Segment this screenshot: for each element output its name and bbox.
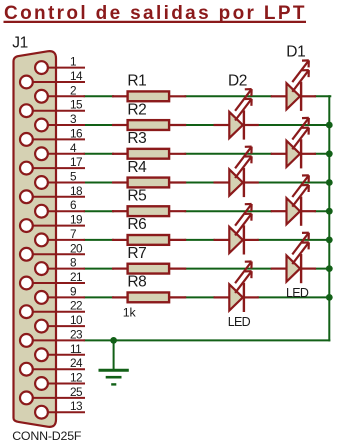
wire: R6 to LED anode xyxy=(186,239,214,241)
svg-text:7: 7 xyxy=(70,227,76,241)
resistor R6 xyxy=(112,216,186,245)
pin 7 of J1 xyxy=(35,227,85,246)
title: Control de salidas por LPT xyxy=(4,3,307,24)
svg-text:19: 19 xyxy=(70,213,82,227)
LED D2 xyxy=(214,72,259,139)
junction: bus node xyxy=(326,122,333,129)
connector J1 reference label xyxy=(12,35,28,52)
svg-text:2: 2 xyxy=(70,83,76,97)
svg-text:CONN-D25F: CONN-D25F xyxy=(12,429,82,443)
svg-text:18: 18 xyxy=(70,184,83,198)
wire: R4 to LED anode xyxy=(186,182,214,184)
junction: ground tap node xyxy=(110,337,117,344)
svg-text:R5: R5 xyxy=(127,188,146,205)
svg-text:13: 13 xyxy=(70,399,83,413)
svg-text:Control de salidas por LPT: Control de salidas por LPT xyxy=(4,3,307,24)
pin 10 of J1 xyxy=(35,313,85,332)
svg-text:5: 5 xyxy=(70,170,77,184)
junction: bus node xyxy=(326,237,333,244)
wire: R8 to LED anode xyxy=(186,296,214,298)
svg-text:15: 15 xyxy=(70,98,83,112)
pin 25 of J1 xyxy=(20,385,85,404)
wire: pin 6 to R5 xyxy=(85,210,113,212)
wire: LED cathode to bus xyxy=(316,95,331,97)
svg-text:4: 4 xyxy=(70,141,77,155)
wire: cathode bus (right vertical) xyxy=(328,96,330,340)
wire: LED cathode to bus xyxy=(258,182,330,184)
resistor R5 xyxy=(112,188,186,217)
svg-text:LED: LED xyxy=(228,315,251,329)
wire: pin 9 to R8 xyxy=(85,296,113,298)
wire: pin 2 to R1 xyxy=(85,95,113,97)
pin 21 of J1 xyxy=(20,270,85,289)
pin 12 of J1 xyxy=(35,371,85,390)
resistor R8 xyxy=(112,274,186,320)
wire: pin 4 to R3 xyxy=(85,153,113,155)
junction: bus node xyxy=(326,294,333,301)
pin 6 of J1 xyxy=(35,198,85,217)
svg-text:D2: D2 xyxy=(228,72,247,89)
pin 11 of J1 xyxy=(35,342,85,361)
pin 14 of J1 xyxy=(20,69,85,88)
pin 20 of J1 xyxy=(20,241,85,260)
svg-text:8: 8 xyxy=(70,256,77,270)
svg-text:R1: R1 xyxy=(127,73,146,90)
LED (row 5) xyxy=(271,175,316,226)
svg-text:10: 10 xyxy=(70,313,83,327)
wire: pin 8 to R7 xyxy=(85,268,113,270)
resistor R4 xyxy=(112,159,186,188)
wire: LED cathode to bus xyxy=(258,239,330,241)
svg-text:6: 6 xyxy=(70,198,77,212)
connector J1 body (CONN-D25F) xyxy=(14,51,57,427)
resistor R3 xyxy=(112,130,186,159)
svg-text:R3: R3 xyxy=(127,130,146,147)
LED (row 4) xyxy=(214,147,259,198)
wire: R2 to LED anode xyxy=(186,124,214,126)
pin 2 of J1 xyxy=(35,83,85,102)
wire: pin 7 to R6 xyxy=(85,239,113,241)
svg-text:1: 1 xyxy=(70,55,76,69)
resistor R2 xyxy=(112,101,186,130)
junction: bus node xyxy=(326,265,333,272)
svg-text:J1: J1 xyxy=(12,35,28,52)
LED (right column, bottom, with LED value label) xyxy=(271,233,316,300)
svg-text:D1: D1 xyxy=(286,44,305,61)
pin 19 of J1 xyxy=(20,213,85,232)
svg-text:22: 22 xyxy=(70,299,82,313)
wire: R1 to LED anode xyxy=(186,95,272,97)
LED (row 6) xyxy=(214,204,259,255)
wire: LED cathode to bus xyxy=(316,210,331,212)
svg-text:11: 11 xyxy=(70,342,81,356)
pin 23 of J1 xyxy=(20,327,85,346)
junction: bus node xyxy=(326,150,333,157)
svg-text:12: 12 xyxy=(70,371,82,385)
svg-text:25: 25 xyxy=(70,385,83,399)
svg-text:R2: R2 xyxy=(127,101,146,118)
pin 18 of J1 xyxy=(20,184,85,203)
junction: bus node xyxy=(326,179,333,186)
pin 8 of J1 xyxy=(35,256,85,275)
pin 4 of J1 xyxy=(35,141,85,160)
svg-text:14: 14 xyxy=(70,69,83,83)
svg-text:23: 23 xyxy=(70,327,83,341)
svg-text:1k: 1k xyxy=(123,305,137,319)
connector J1 value label CONN-D25F xyxy=(12,429,82,443)
svg-text:LED: LED xyxy=(286,286,309,300)
wire: pin 3 to R2 xyxy=(85,124,113,126)
resistor R1 xyxy=(112,73,186,102)
wire: LED cathode to bus xyxy=(258,124,330,126)
pin 16 of J1 xyxy=(20,126,85,145)
pin 15 of J1 xyxy=(20,98,85,117)
svg-text:16: 16 xyxy=(70,126,83,140)
pin 9 of J1 xyxy=(35,284,85,303)
wire: LED cathode to bus xyxy=(316,268,331,270)
svg-text:3: 3 xyxy=(70,112,77,126)
svg-text:9: 9 xyxy=(70,284,76,298)
LED D1 xyxy=(271,44,316,111)
svg-text:R7: R7 xyxy=(127,245,146,262)
svg-text:R4: R4 xyxy=(127,159,147,176)
pin 22 of J1 xyxy=(20,299,85,318)
pin 3 of J1 xyxy=(35,112,85,131)
wire: LED cathode to bus xyxy=(258,296,330,298)
pin 13 of J1 xyxy=(35,399,85,418)
ground xyxy=(99,340,129,384)
pin 1 of J1 xyxy=(35,55,85,74)
wire: LED cathode to bus xyxy=(316,153,331,155)
LED (left column, bottom, with LED value label) xyxy=(214,262,259,330)
svg-text:R6: R6 xyxy=(127,216,146,233)
wire: pin 5 to R4 xyxy=(85,182,113,184)
svg-text:R8: R8 xyxy=(127,274,146,291)
svg-text:17: 17 xyxy=(70,155,82,169)
wire: R3 to LED anode xyxy=(186,153,272,155)
junction: bus node xyxy=(326,208,333,215)
wire: R7 to LED anode xyxy=(186,268,272,270)
resistor R7 xyxy=(112,245,186,274)
svg-text:24: 24 xyxy=(70,356,83,370)
pin 17 of J1 xyxy=(20,155,85,174)
svg-text:20: 20 xyxy=(70,241,83,255)
wire: R5 to LED anode xyxy=(186,210,272,212)
svg-text:21: 21 xyxy=(70,270,82,284)
wire: ground rail pin 23 to bus xyxy=(85,339,330,341)
LED (row 3) xyxy=(271,118,316,168)
pin 24 of J1 xyxy=(20,356,85,375)
pin 5 of J1 xyxy=(35,170,85,189)
